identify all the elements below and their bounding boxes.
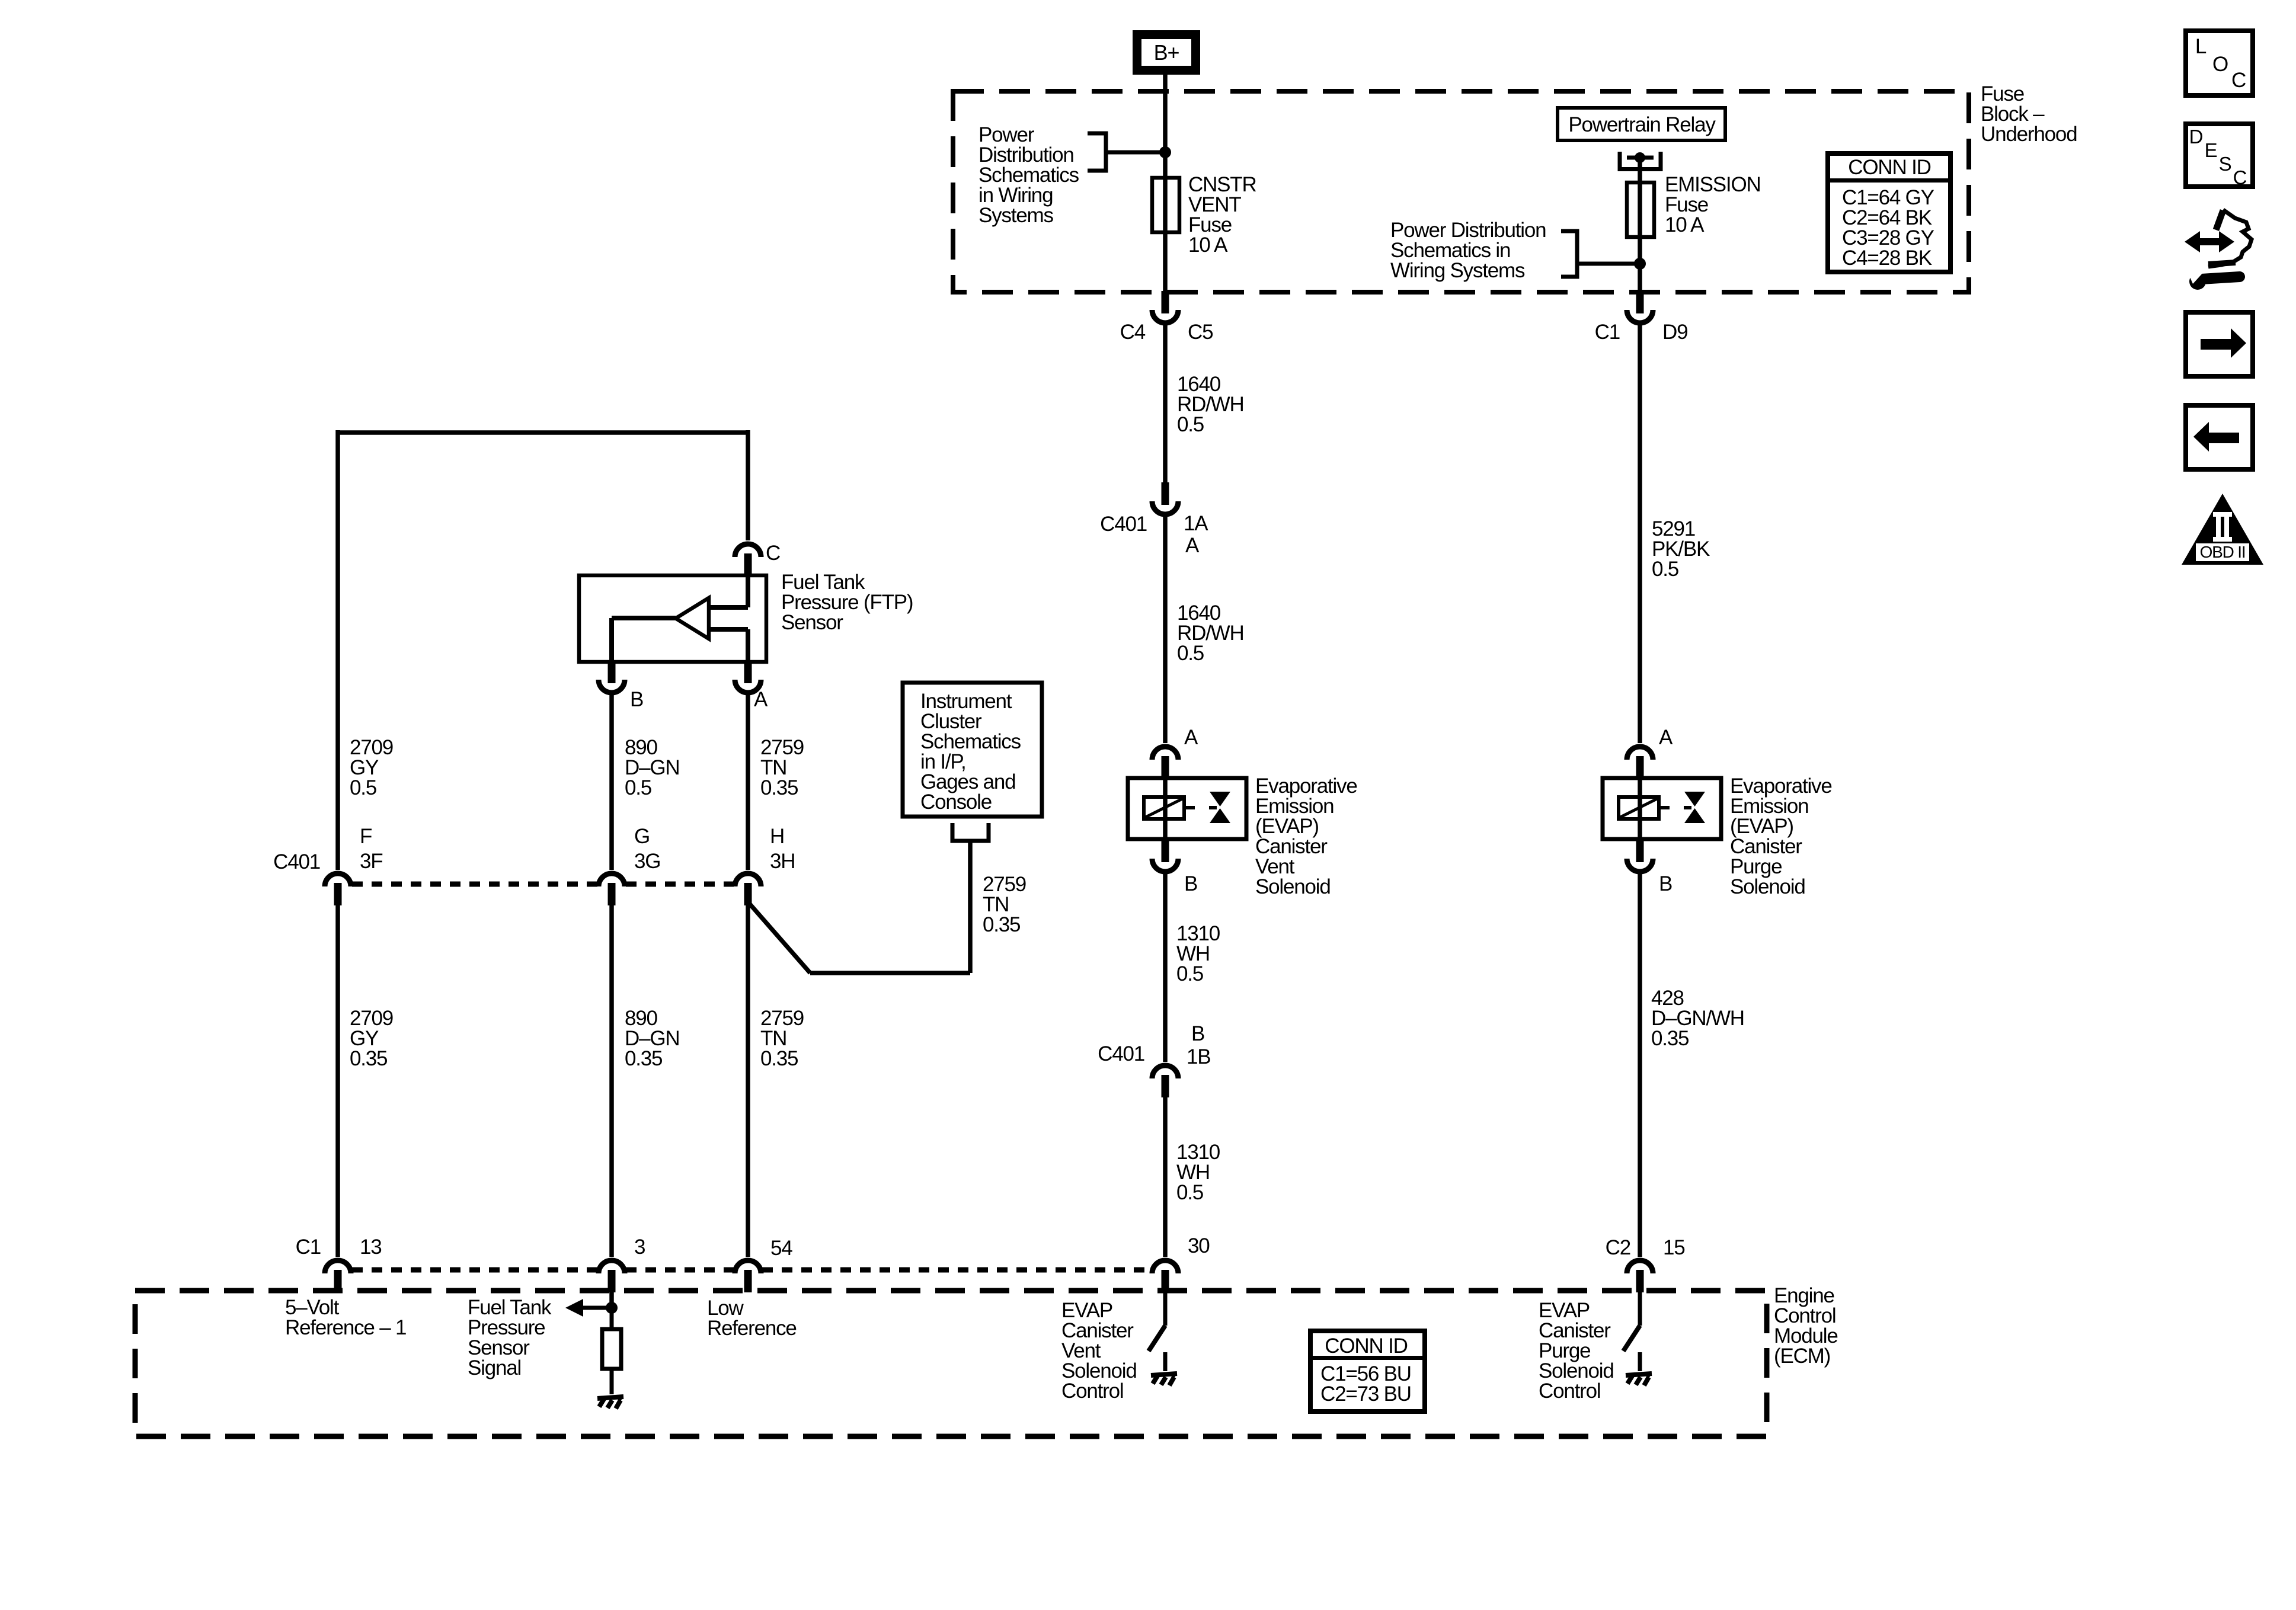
svg-text:Systems: Systems	[978, 204, 1053, 227]
svg-text:3H: 3H	[770, 850, 795, 873]
icon OBD II triangle	[2182, 494, 2263, 565]
wire vent pin B to C401 1B	[1163, 874, 1168, 1062]
FTP sensor internal wiring	[746, 575, 750, 607]
instrument cluster schematics box	[903, 683, 1042, 817]
wire FTP pin A to C401 3H	[746, 695, 750, 870]
EVAP canister vent solenoid box	[1128, 778, 1246, 839]
svg-text:13: 13	[360, 1235, 382, 1259]
C401 dashed connector line	[352, 882, 597, 887]
svg-text:Reference: Reference	[707, 1317, 797, 1340]
FTP sensor amplifier triangle	[676, 598, 709, 639]
battery positive voltage B+ box	[1137, 35, 1196, 71]
fuse EMISSION 10A	[1627, 183, 1654, 237]
connector pin A FTP sensor	[735, 680, 761, 693]
signal arrow	[565, 1299, 583, 1317]
svg-text:O: O	[2212, 53, 2228, 76]
connector C401 1B	[1152, 1065, 1178, 1078]
svg-text:0.35: 0.35	[1651, 1027, 1689, 1050]
svg-text:A: A	[1184, 726, 1198, 749]
svg-text:0.35: 0.35	[350, 1047, 387, 1070]
connector C1-D9 at fuse block output	[1627, 310, 1653, 323]
svg-text:Reference – 1: Reference – 1	[285, 1316, 406, 1339]
icon connector service double arrow	[2185, 231, 2234, 252]
svg-text:15: 15	[1663, 1236, 1685, 1259]
svg-text:C1: C1	[296, 1235, 321, 1259]
svg-text:0.5: 0.5	[350, 776, 376, 799]
svg-text:Solenoid: Solenoid	[1730, 875, 1805, 898]
svg-text:3: 3	[634, 1235, 645, 1259]
wire C1-D9 to purge solenoid pin A	[1638, 325, 1642, 743]
svg-text:A: A	[1659, 726, 1673, 749]
EVAP canister purge solenoid box	[1603, 778, 1721, 839]
icon forward arrow box	[2186, 312, 2253, 376]
icon back arrow box	[2186, 405, 2253, 469]
ground vent driver	[1151, 1374, 1177, 1375]
svg-text:1B: 1B	[1187, 1045, 1210, 1068]
svg-text:Sensor: Sensor	[781, 611, 843, 634]
svg-text:C401: C401	[1098, 1042, 1144, 1065]
purge solenoid coil	[1638, 778, 1642, 839]
wire B+ down through CNSTR VENT fuse to connector C4	[1163, 75, 1168, 291]
svg-text:C5: C5	[1188, 321, 1213, 344]
svg-text:1A: 1A	[1184, 512, 1208, 535]
svg-text:0.35: 0.35	[625, 1047, 662, 1070]
svg-text:0.5: 0.5	[1177, 642, 1204, 665]
connector C401 1A	[1152, 501, 1178, 514]
power distribution tap bracket (right)	[1561, 231, 1577, 277]
svg-text:30: 30	[1188, 1234, 1210, 1257]
svg-text:A: A	[754, 688, 768, 711]
icon LOC box	[2186, 31, 2253, 95]
svg-text:C2=73 BU: C2=73 BU	[1320, 1382, 1411, 1406]
fuse CNSTR VENT 10A	[1152, 178, 1179, 232]
svg-text:B: B	[1191, 1022, 1204, 1045]
svg-text:C: C	[2233, 167, 2247, 188]
wire C4C5 to C401 1A	[1163, 325, 1168, 484]
svg-text:C4=28 BK: C4=28 BK	[1842, 247, 1932, 270]
switch EVAP vent control driver	[1163, 1292, 1168, 1326]
connector pin B FTP sensor	[599, 680, 625, 693]
svg-text:C2: C2	[1606, 1236, 1630, 1259]
connector C4-C5 at fuse block output	[1152, 310, 1178, 323]
svg-text:0.5: 0.5	[1176, 1181, 1203, 1204]
svg-text:F: F	[360, 825, 372, 848]
wire instrument cluster to C401 3H splice	[968, 841, 973, 973]
svg-text:0.5: 0.5	[1652, 558, 1678, 581]
instrument cluster connector bracket	[952, 823, 989, 841]
junction dot on CNSTR VENT feed	[1159, 146, 1171, 158]
svg-text:C4: C4	[1120, 321, 1146, 344]
connector pin B purge solenoid	[1627, 859, 1653, 872]
purge solenoid valve	[1684, 806, 1691, 809]
svg-text:L: L	[2195, 35, 2207, 58]
connector ECM pin 30	[1152, 1260, 1178, 1273]
connector pin A purge solenoid	[1627, 747, 1653, 760]
svg-text:C401: C401	[1100, 513, 1147, 536]
svg-text:B: B	[1659, 872, 1672, 895]
svg-text:S: S	[2219, 153, 2231, 175]
svg-text:10 A: 10 A	[1665, 213, 1705, 236]
wire C401 3G to ECM pin 3	[609, 905, 614, 1257]
svg-text:3F: 3F	[360, 850, 382, 873]
svg-text:54: 54	[770, 1237, 792, 1260]
CONN ID table ECM	[1310, 1331, 1425, 1411]
junction dot on EMISSION feed	[1634, 258, 1646, 270]
CONN ID table fuse block	[1828, 153, 1950, 272]
junction dot relay output	[1635, 152, 1645, 163]
switch EVAP purge control driver	[1638, 1292, 1642, 1326]
ECM pin3 internal wire and junction	[609, 1292, 614, 1313]
svg-text:B: B	[630, 688, 643, 711]
svg-text:C: C	[766, 542, 780, 565]
vent solenoid coil	[1163, 778, 1168, 839]
svg-text:C1: C1	[1595, 321, 1620, 344]
svg-text:CONN ID: CONN ID	[1848, 156, 1930, 179]
svg-text:0.5: 0.5	[625, 776, 651, 799]
svg-text:G: G	[634, 825, 650, 848]
ECM C1 connector dashed line	[352, 1267, 597, 1273]
vent solenoid valve	[1209, 806, 1217, 809]
wire purge pin B to ECM pin 15	[1638, 874, 1642, 1257]
svg-text:OBD II: OBD II	[2200, 543, 2246, 561]
connector pin A vent solenoid	[1152, 747, 1178, 760]
connector C401 F	[325, 873, 351, 886]
icon connector outline with wrench	[2216, 210, 2223, 230]
svg-text:0.5: 0.5	[1177, 413, 1204, 436]
svg-text:3G: 3G	[634, 850, 660, 873]
connector C401 3H	[735, 873, 761, 886]
connector C401 3G	[599, 873, 625, 886]
svg-text:D: D	[2189, 126, 2203, 148]
svg-text:C: C	[2231, 69, 2246, 92]
svg-text:0.35: 0.35	[983, 913, 1020, 936]
internal pull resistor	[610, 1313, 614, 1329]
svg-text:D9: D9	[1662, 321, 1687, 344]
connector ECM pin 15	[1627, 1260, 1653, 1273]
svg-text:0.5: 0.5	[1176, 962, 1203, 985]
wire C401 F to ECM pin 13	[335, 905, 340, 1257]
svg-text:Wiring Systems: Wiring Systems	[1390, 259, 1525, 282]
connector ECM pin 3	[599, 1260, 625, 1273]
svg-text:H: H	[770, 825, 784, 848]
svg-text:0.35: 0.35	[760, 1047, 798, 1070]
svg-text:Powertrain Relay: Powertrain Relay	[1568, 113, 1716, 136]
power distribution tap bracket (left)	[1088, 133, 1106, 171]
connector ECM pin 13	[325, 1260, 351, 1273]
wire relay to EMISSION fuse and down to connector D9	[1638, 158, 1642, 291]
svg-text:Underhood: Underhood	[1981, 123, 2077, 146]
svg-text:10 A: 10 A	[1188, 233, 1228, 257]
connector ECM pin 54	[735, 1260, 761, 1273]
svg-text:B: B	[1184, 872, 1197, 895]
fuse block underhood dashed outline	[953, 91, 1969, 292]
svg-text:B+: B+	[1154, 40, 1179, 65]
svg-text:Console: Console	[920, 790, 992, 814]
Powertrain Relay box	[1558, 108, 1725, 140]
wire FTP loop top and sides	[338, 430, 748, 435]
connector pin C FTP sensor	[735, 544, 761, 557]
fuel tank pressure FTP sensor box	[579, 575, 766, 662]
svg-text:E: E	[2205, 139, 2217, 161]
icon DESC box	[2186, 124, 2253, 187]
svg-text:(ECM): (ECM)	[1774, 1345, 1830, 1368]
svg-text:CONN ID: CONN ID	[1325, 1334, 1407, 1358]
wire C401-1B to ECM pin 30	[1163, 1097, 1168, 1257]
svg-text:Control: Control	[1539, 1379, 1600, 1403]
ground FTP signal	[597, 1397, 623, 1398]
svg-text:C401: C401	[273, 850, 320, 873]
ground purge driver	[1626, 1374, 1652, 1375]
svg-text:Solenoid: Solenoid	[1255, 875, 1331, 898]
svg-text:A: A	[1185, 534, 1200, 557]
connector pin B vent solenoid	[1152, 859, 1178, 872]
svg-text:Control: Control	[1061, 1379, 1123, 1403]
svg-text:0.35: 0.35	[760, 776, 798, 799]
wire C401 3H to ECM pin 54	[746, 905, 750, 1257]
relay output bracket	[1620, 152, 1661, 169]
wire FTP pin B to C401 3G	[609, 695, 614, 870]
wire C401-1A to vent solenoid pin A	[1163, 517, 1168, 743]
svg-text:Signal: Signal	[468, 1356, 521, 1379]
engine control module dashed outline	[135, 1291, 1767, 1436]
